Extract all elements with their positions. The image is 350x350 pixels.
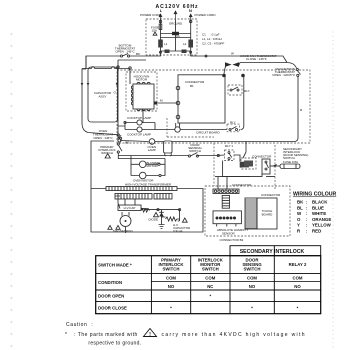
svg-text::: : — [306, 200, 308, 205]
wire from filter right to magnetron thermostat — [191, 52, 297, 68]
diode D1 — [161, 210, 163, 222]
svg-text:WHITE: WHITE — [312, 211, 326, 216]
relay coil box — [240, 162, 249, 168]
svg-text:COM: COM — [166, 276, 176, 281]
ground symbol — [159, 222, 165, 229]
svg-text:RED: RED — [312, 229, 321, 234]
svg-text:BLUE: BLUE — [312, 205, 324, 210]
svg-text::: : — [306, 205, 308, 210]
svg-text:NC: NC — [207, 284, 213, 289]
svg-text:CONNECTOR B2: CONNECTOR B2 — [220, 238, 244, 242]
svg-text:NO: NO — [249, 284, 256, 289]
svg-text:CONDITION: CONDITION — [98, 280, 122, 285]
warning triangle diode — [154, 213, 159, 217]
hv capacitor box — [118, 205, 141, 211]
svg-text:W: W — [231, 52, 234, 56]
wires from interlock — [118, 153, 188, 159]
svg-text:*: * — [65, 332, 67, 338]
capacitor C1 — [161, 33, 191, 35]
wire secondary to cap — [115, 196, 148, 209]
wire L arrow up — [159, 14, 162, 19]
svg-text:H.V.CAP: H.V.CAP — [124, 206, 136, 210]
transformer primary — [106, 187, 177, 191]
ribbon connector hatched — [245, 198, 257, 229]
svg-text:COOKTOP LAMP: COOKTOP LAMP — [127, 133, 151, 137]
svg-text:SECONDARY INTERLOCK: SECONDARY INTERLOCK — [240, 249, 305, 255]
fuse wires — [270, 165, 280, 167]
bottom connector dashed box — [205, 186, 290, 236]
oven motor — [139, 172, 146, 179]
svg-text:OPEN : 145°C: OPEN : 145°C — [115, 50, 135, 54]
svg-text:BLACK: BLACK — [312, 200, 328, 205]
arrow left — [272, 164, 277, 167]
relay 2 dashed box — [241, 158, 256, 169]
svg-text:ORANGE: ORANGE — [312, 217, 331, 222]
svg-text:B1: B1 — [190, 84, 194, 88]
svg-text:OPEN : 120±5°C: OPEN : 120±5°C — [272, 73, 296, 77]
relay RY2 switch on wire — [227, 124, 240, 132]
relay 1 dashed box — [225, 150, 235, 161]
svg-text:carry more than 4KVDC high vol: carry more than 4KVDC high voltage with — [162, 332, 306, 338]
oven thermostat switch — [82, 124, 117, 135]
svg-text:O: O — [297, 217, 301, 222]
margin dots left — [11, 33, 13, 347]
warning triangle magnetron — [116, 226, 120, 230]
wire hood fan relay branch — [155, 77, 244, 130]
transformer secondary 1 — [115, 194, 152, 200]
wire filter bottom terminals — [160, 51, 162, 53]
indicator lamp on wire — [175, 127, 180, 132]
circuit board dashed outline — [117, 70, 310, 143]
noise filter dashed box — [146, 19, 197, 55]
fuse symbol — [159, 24, 162, 30]
svg-text:CONNECTOR: CONNECTOR — [232, 183, 252, 187]
cooktop lamp 2 — [137, 127, 142, 132]
left bus down — [85, 56, 87, 69]
connector B1 box — [178, 75, 225, 123]
relay 2 switch box — [262, 159, 270, 174]
sensor legs — [217, 224, 236, 227]
svg-text:RLY: RLY — [244, 89, 250, 93]
svg-text:BOARD: BOARD — [262, 213, 274, 217]
svg-text:SENSOR: SENSOR — [222, 232, 236, 236]
warning triangle fuse — [153, 32, 157, 35]
svg-text:DIODE: DIODE — [149, 218, 159, 222]
inductor small — [141, 209, 149, 212]
inductor L2 — [188, 40, 193, 48]
motors loop — [131, 156, 165, 176]
connector strip horizontal — [213, 189, 239, 194]
svg-text:COM: COM — [205, 276, 215, 281]
wire arrows — [81, 83, 119, 86]
capacitor C2 — [165, 50, 170, 54]
wire C2 C3 to ground — [161, 20, 191, 51]
svg-text::: : — [306, 217, 308, 222]
svg-text:BL: BL — [297, 205, 303, 210]
svg-text:MOTOR: MOTOR — [147, 164, 159, 168]
svg-text:RLY 1: RLY 1 — [225, 144, 233, 148]
svg-text:0.91µF: 0.91µF — [173, 229, 183, 233]
svg-text:POWER CORD: POWER CORD — [140, 13, 162, 17]
svg-text:SWITCH: SWITCH — [202, 267, 219, 272]
capacitor C3 — [182, 50, 187, 54]
svg-text:L2: L2 — [183, 42, 187, 46]
svg-text:Caution :: Caution : — [66, 322, 93, 328]
svg-text:SWITCH MADE *: SWITCH MADE * — [98, 263, 132, 268]
svg-text::: : — [306, 211, 308, 216]
svg-text:!: ! — [149, 332, 151, 338]
svg-text:COOKTOP LAMP: COOKTOP LAMP — [127, 116, 151, 120]
svg-text:NO: NO — [168, 284, 175, 289]
bottom thermostat switch — [120, 55, 122, 57]
svg-text::: : — [306, 223, 308, 228]
svg-text:FUSE 0.8A: FUSE 0.8A — [283, 160, 298, 164]
svg-text:SWITCH: SWITCH — [163, 267, 180, 272]
wire motor top to bus — [130, 69, 143, 123]
svg-text:OPEN : 145°C: OPEN : 145°C — [93, 136, 113, 140]
svg-text:*: * — [297, 306, 299, 311]
resistor R — [166, 217, 180, 221]
svg-text:*: * — [209, 294, 211, 299]
hood fan motor dashed box — [126, 72, 157, 111]
svg-text:RELAY 2: RELAY 2 — [289, 262, 307, 267]
svg-text:N: N — [189, 8, 192, 13]
wire hop line — [82, 67, 130, 69]
hood fan motor inner box — [133, 84, 154, 109]
svg-text:C1 : 0.1µF: C1 : 0.1µF — [202, 33, 220, 37]
svg-text:YELLOW: YELLOW — [312, 223, 332, 228]
touch board box — [257, 198, 277, 229]
wire switch to relay — [197, 155, 240, 162]
svg-text:CLOSE : 145°F: CLOSE : 145°F — [246, 57, 267, 61]
legend entries — [297, 200, 332, 234]
svg-text:BK: BK — [297, 200, 304, 205]
relay RY1 switch — [230, 89, 232, 91]
wire secondary HV — [145, 209, 180, 211]
lamp parallel wires — [118, 123, 155, 130]
wire outer left vertical — [82, 69, 86, 124]
svg-text:R: R — [300, 108, 303, 112]
svg-text::: : — [306, 229, 308, 234]
svg-text:BK: BK — [136, 52, 140, 56]
ground arrow up — [174, 11, 177, 20]
svg-text:: The parts marked with: : The parts marked with — [74, 332, 138, 338]
svg-text:C2, C3 : 4700PF: C2, C3 : 4700PF — [202, 42, 225, 46]
svg-text:respective to ground.: respective to ground. — [88, 341, 141, 347]
svg-text:HIGH VOLTAGE TRANSFORMER: HIGH VOLTAGE TRANSFORMER — [125, 183, 172, 187]
N rail — [190, 19, 192, 52]
svg-text:W: W — [297, 211, 302, 216]
svg-text:*: * — [251, 306, 253, 311]
wire from filter left to left bus — [86, 52, 161, 69]
wire below relay — [215, 142, 275, 177]
svg-text:DOOR OPEN: DOOR OPEN — [98, 294, 124, 299]
wire N arrow up — [189, 14, 192, 19]
L rail — [160, 19, 162, 52]
svg-text:NO: NO — [294, 284, 301, 289]
connector B1 top pins — [222, 74, 226, 78]
svg-text:L1: L1 — [164, 42, 168, 46]
svg-text:15A: 15A — [152, 29, 157, 33]
transformer secondary 2 — [154, 194, 172, 200]
svg-text:COM: COM — [247, 276, 257, 281]
sensor box with pins — [213, 211, 241, 224]
svg-text:WIRING COLOUR: WIRING COLOUR — [293, 192, 336, 198]
door sensing switch — [188, 155, 190, 157]
dashed vertical to connector — [214, 143, 275, 190]
svg-text:RLY: RLY — [230, 120, 236, 124]
left loop box — [91, 141, 203, 232]
svg-text:COM: COM — [292, 276, 302, 281]
svg-text:O: O — [114, 91, 117, 95]
magnetron — [120, 216, 131, 227]
table — [96, 246, 321, 314]
junction box — [164, 141, 172, 153]
margin dots right — [332, 32, 335, 348]
magnetron thermostat switch — [296, 68, 298, 70]
wire bottom connections — [126, 208, 180, 233]
connector B1 left pins — [176, 86, 180, 90]
svg-text:SWITCH: SWITCH — [189, 149, 201, 153]
svg-text:LAMP: LAMP — [148, 148, 156, 152]
svg-text:DOOR CLOSE: DOOR CLOSE — [98, 306, 127, 311]
hood fan thermostat switch — [224, 63, 240, 75]
svg-text:M: M — [160, 99, 163, 103]
wire down to lower rail — [223, 161, 250, 177]
svg-text:CONNECTOR: CONNECTOR — [185, 80, 205, 84]
node circles top — [129, 67, 131, 69]
svg-text:MOTOR: MOTOR — [136, 78, 148, 82]
bus x118 — [118, 60, 146, 138]
motor pin M — [154, 102, 157, 105]
monitor fuse — [280, 164, 300, 169]
inductor L1 — [158, 40, 163, 48]
blower motor — [139, 161, 146, 168]
svg-text:CONNECTOR: CONNECTOR — [261, 193, 281, 197]
svg-text:R: R — [297, 229, 301, 234]
relay RY1 dashed box — [228, 85, 242, 95]
capacitor assy box — [88, 67, 118, 122]
svg-text:ASSY: ASSY — [98, 95, 106, 99]
svg-text:CIRCUIT BOARD: CIRCUIT BOARD — [196, 131, 220, 135]
wires into strip — [218, 177, 227, 189]
node line 2 — [161, 37, 191, 39]
svg-text:Y: Y — [297, 223, 300, 228]
svg-text:SWITCH: SWITCH — [244, 267, 261, 272]
svg-text:POWER CORD: POWER CORD — [195, 13, 217, 17]
vertical hatched component — [222, 195, 229, 208]
right bus wire — [294, 77, 298, 142]
wire oven lamp to right bus — [155, 141, 294, 143]
warning triangle resistor — [182, 218, 187, 222]
warning triangle — [105, 154, 110, 159]
node A — [118, 139, 121, 142]
svg-text:L1, L2 : 0.8mH: L1, L2 : 0.8mH — [202, 37, 222, 41]
svg-text:C1: C1 — [176, 34, 180, 38]
oven lamp — [120, 141, 149, 142]
svg-text:*: * — [170, 306, 172, 311]
wire primary feeds — [91, 189, 203, 206]
